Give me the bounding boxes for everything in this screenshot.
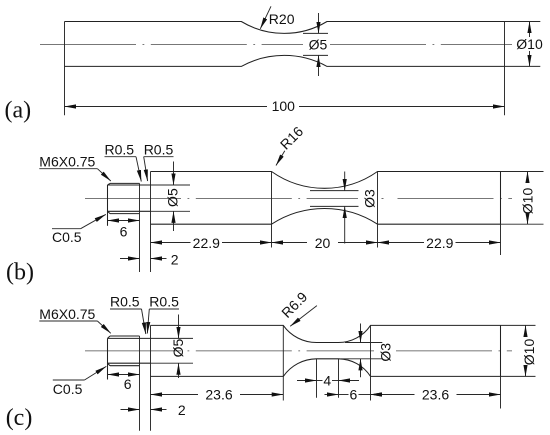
svg-text:2: 2 [171,251,179,267]
svg-text:Ø5: Ø5 [309,37,328,53]
svg-text:M6X0.75: M6X0.75 [39,154,95,170]
svg-text:(a): (a) [5,97,32,123]
svg-text:Ø5: Ø5 [170,338,186,357]
svg-text:22.9: 22.9 [426,235,453,251]
svg-text:M6X0.75: M6X0.75 [39,306,95,322]
svg-text:6: 6 [124,376,132,392]
svg-text:Ø10: Ø10 [521,339,537,366]
svg-text:4: 4 [323,373,331,389]
svg-text:(c): (c) [6,405,33,431]
svg-text:23.6: 23.6 [205,387,232,403]
svg-text:Ø3: Ø3 [361,189,377,208]
svg-text:R0.5: R0.5 [144,141,174,157]
svg-text:R20: R20 [269,11,295,27]
svg-text:23.6: 23.6 [422,387,449,403]
svg-text:C0.5: C0.5 [52,229,82,245]
svg-text:Ø3: Ø3 [377,343,393,362]
svg-text:100: 100 [272,98,296,114]
svg-text:R0.5: R0.5 [149,294,179,310]
svg-text:Ø5: Ø5 [165,188,181,207]
svg-text:R0.5: R0.5 [110,294,140,310]
svg-text:C0.5: C0.5 [53,381,83,397]
svg-text:Ø10: Ø10 [520,188,536,215]
svg-text:(b): (b) [6,260,34,286]
svg-text:22.9: 22.9 [193,235,220,251]
svg-text:Ø10: Ø10 [516,36,543,52]
svg-text:6: 6 [120,223,128,239]
svg-text:R0.5: R0.5 [105,141,135,157]
svg-text:6: 6 [350,387,358,403]
svg-text:20: 20 [315,235,331,251]
svg-text:2: 2 [178,402,186,418]
